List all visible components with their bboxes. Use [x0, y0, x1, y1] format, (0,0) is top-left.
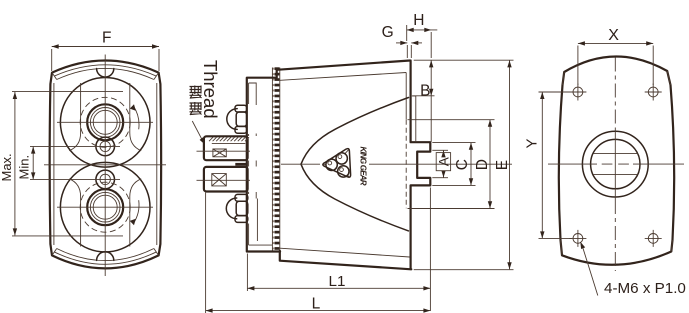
dimension D	[408, 120, 495, 209]
bottom horizontal centerline	[57, 206, 153, 208]
svg-text:Thread: Thread	[200, 60, 221, 119]
dimension Max.	[0, 92, 123, 236]
bottom base band	[280, 251, 412, 269]
bottom chamfer line	[280, 248, 410, 257]
upper stud centerline	[197, 150, 251, 152]
connector bar at centerline	[235, 163, 247, 166]
stud thread hatch band	[209, 137, 249, 141]
housing V seam lower	[301, 98, 409, 165]
svg-text:D: D	[474, 159, 491, 170]
svg-text:H: H	[413, 12, 424, 29]
main housing top edge	[277, 61, 410, 70]
body left edge line	[279, 68, 281, 251]
hoist body outline (front view)	[50, 61, 161, 269]
dimension F	[52, 29, 159, 71]
bottom suspension nut	[226, 194, 248, 222]
logo triangle	[323, 149, 351, 178]
mounting hole bottom-left	[569, 230, 586, 247]
bottom sheave circle	[60, 162, 150, 252]
lower stud centerline	[197, 179, 251, 181]
svg-text:X: X	[608, 27, 619, 44]
top chamfer line	[280, 73, 406, 81]
fins left edge	[271, 68, 273, 251]
parting line between sheaves	[44, 164, 166, 166]
terminal plate edge	[412, 96, 416, 142]
top chain guide vase	[69, 83, 80, 151]
svg-text:A: A	[437, 157, 452, 166]
right view horizontal centerline	[548, 163, 684, 165]
body inner top line 2	[57, 68, 154, 79]
lower stud X box	[212, 174, 227, 186]
upper threaded stud block	[204, 136, 248, 160]
mounting flange plate	[247, 70, 280, 252]
svg-text:Min.: Min.	[17, 155, 32, 180]
right view vertical centerline	[614, 58, 616, 272]
dimension L1	[247, 188, 430, 312]
bottom chain pocket semicircle	[97, 252, 114, 261]
MIDDLE VIEW	[197, 61, 513, 270]
body inner bottom chamfer line	[54, 252, 157, 264]
upper stud X box	[213, 149, 226, 157]
svg-text:L1: L1	[329, 273, 346, 290]
boss chords	[593, 154, 637, 175]
top rotation arrow	[133, 106, 139, 130]
logo circles	[326, 159, 337, 170]
dimension C	[432, 143, 475, 186]
top suspension nut	[227, 105, 247, 133]
body side inner lines	[54, 83, 157, 245]
dimension X	[578, 27, 653, 85]
svg-text:F: F	[102, 29, 111, 46]
mounting hole bottom-right	[645, 230, 662, 247]
bottom pitch dashed circle	[80, 182, 130, 232]
svg-text:Y: Y	[524, 138, 541, 148]
vertical centerline	[104, 55, 106, 277]
RIGHT VIEW	[548, 56, 684, 271]
svg-text:B: B	[420, 82, 430, 99]
housing right edge with terminal tabs	[411, 61, 431, 270]
bottom boss rings	[87, 189, 123, 225]
center boss inner circle	[591, 139, 640, 188]
hidden stator line solid part	[405, 73, 407, 120]
upper idler circle	[96, 137, 115, 156]
svg-text:C: C	[454, 159, 471, 170]
dimension E	[414, 60, 514, 269]
svg-text:KING GEAR: KING GEAR	[359, 147, 368, 186]
dimension Min.	[17, 146, 120, 179]
top boss rings	[87, 104, 123, 140]
lower idler circle	[96, 170, 115, 189]
bottom chain guide vase	[69, 179, 80, 247]
svg-text:G: G	[382, 24, 394, 41]
cooling fins strip	[272, 67, 279, 250]
top chain pocket semicircle	[97, 69, 114, 78]
dimension H	[407, 12, 438, 58]
boss center dashes	[602, 163, 629, 165]
body corner bevels	[52, 73, 159, 256]
bolt note 4-M6 x P1.0	[580, 242, 686, 297]
svg-text:4-M6 x P1.0: 4-M6 x P1.0	[604, 280, 686, 297]
mounting hole top-right	[645, 84, 662, 101]
center boss outer circle	[582, 131, 648, 197]
dimension G	[382, 24, 422, 58]
hidden stator line dashed part	[405, 120, 407, 209]
bottom rotation arrow	[133, 200, 139, 224]
datum A	[432, 150, 451, 177]
svg-text:Max.: Max.	[0, 153, 14, 181]
svg-text:E: E	[494, 160, 511, 170]
LEFT VIEW	[44, 55, 166, 277]
body inner bottom line 2	[57, 249, 154, 261]
dimension B	[413, 60, 514, 142]
middle centerline	[281, 163, 512, 165]
mounting hole top-left	[569, 84, 586, 101]
dimension Y	[524, 92, 572, 238]
top sheave circle	[60, 78, 150, 168]
body inner top chamfer line	[54, 65, 157, 76]
thread label	[190, 60, 222, 144]
lower threaded stud block	[204, 167, 248, 192]
top horizontal centerline	[57, 121, 153, 123]
motor end cover outline	[559, 56, 674, 264]
flange inner panel lines	[249, 83, 272, 245]
top pitch dashed circle	[80, 97, 130, 147]
housing V seam upper	[301, 164, 409, 231]
dimension L	[206, 193, 431, 313]
svg-text:L: L	[312, 296, 321, 313]
corner bevel marks	[561, 71, 673, 255]
